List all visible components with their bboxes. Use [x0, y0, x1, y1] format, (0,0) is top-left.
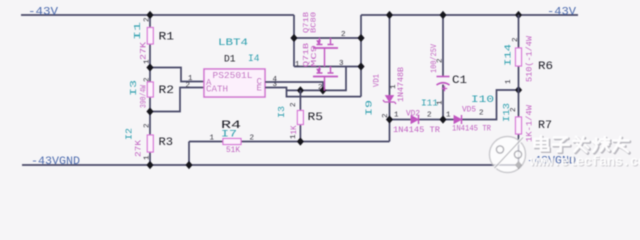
svg-text:51K: 51K: [226, 146, 240, 155]
junction top jog: [290, 34, 297, 42]
resistor R7: [502, 90, 552, 165]
svg-text:510(-1/4W: 510(-1/4W: [526, 36, 535, 82]
svg-text:1: 1: [210, 135, 215, 143]
wire: R1/R2 junction to opto pin1 (A): [150, 68, 204, 82]
svg-text:I14: I14: [504, 44, 514, 66]
svg-text:R5: R5: [308, 112, 324, 124]
svg-text:R3: R3: [159, 137, 174, 149]
junction row middle (C1 leg): [439, 115, 446, 123]
svg-text:390/4W: 390/4W: [140, 85, 149, 108]
resistor R4 (horizontal): [189, 120, 390, 155]
svg-text:1N4145 TR: 1N4145 TR: [452, 125, 491, 134]
svg-text:100/25V: 100/25V: [430, 44, 439, 73]
watermark: chinese brand text (drawn glyphs): [535, 136, 630, 153]
wire: left column vertical x=150 (R1/R2/R3 chain): [149, 15, 151, 165]
wire: bottom -43VGND bus: [22, 164, 519, 166]
junction C-wire drop: [319, 86, 326, 94]
svg-text:I3: I3: [129, 80, 139, 96]
svg-text:I7: I7: [221, 130, 237, 141]
junction at R2 bottom: [146, 107, 153, 115]
transistor Q2 (lower, magenta symbol): [313, 67, 338, 91]
junction R5 top: [297, 86, 304, 94]
resistor R2: [129, 77, 174, 108]
svg-text:1: 1: [144, 155, 152, 160]
wire: R2/R3 junction to opto pin2 (CATH): [150, 88, 204, 112]
svg-text:R2: R2: [159, 85, 175, 97]
junction R4 leg on bus: [185, 161, 192, 169]
wire: level B horizontal y=90.4: [287, 67, 347, 91]
wire: vertical x=361 from bus down to staircase: [360, 15, 362, 97]
resistor R6: [504, 15, 554, 90]
junction x361 on jog: [357, 34, 364, 42]
junction R6/R7 node: [515, 86, 522, 94]
wire: top -43V bus right segment: [361, 14, 578, 16]
svg-text:R7: R7: [538, 120, 552, 132]
svg-text:27K: 27K: [135, 140, 144, 157]
wire: middle rail y=66.5: [294, 38, 361, 67]
svg-text:1: 1: [390, 84, 398, 89]
transistor Q1 (upper, magenta symbol): [313, 38, 338, 67]
junction x361 on mid rail: [357, 62, 364, 70]
svg-text:R1: R1: [159, 32, 175, 44]
svg-text:VD1: VD1: [373, 74, 382, 87]
junction R5 bottom: [297, 137, 304, 145]
resistor R3: [125, 123, 174, 160]
resistor R5: [277, 90, 323, 141]
svg-text:I11: I11: [421, 98, 438, 109]
diode VD5: [446, 106, 491, 134]
wire: jog horizontal y=38: [294, 37, 361, 39]
junction R1 top on bus: [146, 11, 153, 19]
svg-text:I3: I3: [277, 106, 287, 118]
svg-text:1: 1: [290, 134, 298, 139]
watermark: www.elecfans.com text: [530, 156, 640, 172]
svg-text:1: 1: [446, 112, 451, 120]
svg-text:1K-1/4W: 1K-1/4W: [526, 105, 535, 142]
junction VD1 top on bus: [386, 11, 393, 19]
svg-text:Q71B: Q71B: [303, 42, 311, 67]
svg-text:-43VGND: -43VGND: [31, 156, 80, 168]
svg-text:BC80: BC80: [311, 11, 319, 33]
svg-text:I4: I4: [248, 53, 260, 65]
svg-text:MC9: MC9: [311, 45, 319, 67]
svg-text:2: 2: [479, 110, 484, 118]
svg-text:2: 2: [144, 77, 152, 82]
wire: top bus jog down at x=294: [293, 15, 295, 38]
diode VD1 (zener): [365, 15, 407, 120]
svg-text:-43V: -43V: [28, 7, 58, 19]
svg-text:I9: I9: [365, 100, 375, 116]
svg-text:1N4748B: 1N4748B: [397, 67, 406, 102]
optocoupler D1 PS2501L: [186, 38, 278, 97]
svg-text:I10: I10: [471, 94, 494, 106]
svg-text:2: 2: [318, 84, 323, 92]
wire: R4 left leg down to bottom bus: [188, 142, 190, 166]
junction R7 on bottom bus: [515, 161, 522, 169]
wire: top -43V bus left segment: [21, 14, 294, 16]
svg-text:2: 2: [341, 31, 346, 39]
junction at R1 bottom: [146, 63, 153, 71]
svg-text:D1: D1: [224, 54, 236, 66]
svg-text:2: 2: [437, 58, 445, 63]
svg-text:1: 1: [505, 79, 513, 84]
svg-text:1: 1: [295, 61, 300, 69]
resistor R1: [133, 17, 174, 64]
wire: row left leg down to mid bottom wire: [389, 120, 391, 142]
svg-text:R6: R6: [538, 61, 553, 73]
svg-text:PS2501L: PS2501L: [213, 70, 253, 81]
capacitor C1: [430, 15, 467, 120]
svg-text:2: 2: [250, 135, 255, 143]
svg-text:C1: C1: [452, 75, 467, 87]
svg-text:VD5: VD5: [462, 106, 476, 115]
svg-text:-43V: -43V: [547, 7, 576, 19]
junction R3 on bus: [146, 161, 153, 169]
svg-text:CATH: CATH: [206, 85, 228, 95]
wire: opto C pin to transistor junction: [265, 82, 323, 90]
svg-text:27K: 27K: [140, 42, 149, 60]
svg-text:1: 1: [394, 112, 399, 120]
junction R6 top on bus: [515, 11, 522, 19]
svg-text:2: 2: [290, 102, 298, 107]
svg-text:1: 1: [144, 59, 152, 64]
wire: opto E pin staircase down and right: [265, 88, 361, 97]
wire: diode row y=119.5: [390, 90, 519, 120]
watermark: elecfans plug logo: [490, 137, 526, 173]
svg-text:2: 2: [144, 123, 152, 128]
junction row left: [386, 115, 393, 123]
svg-text:1K: 1K: [290, 125, 299, 134]
svg-text:2: 2: [186, 82, 191, 90]
svg-text:LBT4: LBT4: [218, 38, 248, 49]
svg-text:3: 3: [339, 60, 344, 68]
svg-text:2: 2: [512, 37, 520, 42]
svg-text:E: E: [257, 84, 262, 94]
svg-text:1N4145 TR: 1N4145 TR: [393, 126, 440, 135]
diode VD2: [393, 110, 440, 136]
svg-text:I1: I1: [133, 22, 143, 40]
junction C1 top on bus: [439, 11, 446, 19]
svg-text:VD2: VD2: [406, 110, 420, 119]
svg-text:2: 2: [427, 112, 432, 120]
svg-text:www.elecfans.com: www.elecfans.com: [530, 156, 640, 171]
svg-text:2: 2: [510, 107, 518, 112]
svg-text:I2: I2: [125, 128, 135, 140]
